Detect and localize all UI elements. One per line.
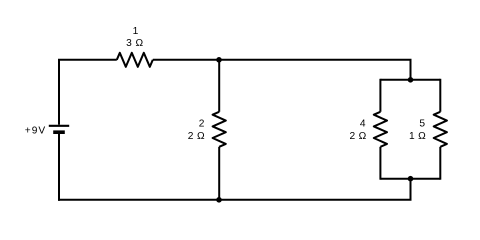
svg-text:+9V: +9V [25,126,46,137]
wire left vertical upper [58,60,60,125]
wire left vertical lower [58,134,60,201]
wire parallel top rail [380,79,440,81]
resistor R4 [374,79,387,180]
wire parallel bottom rail [380,178,440,180]
svg-text:2 Ω: 2 Ω [350,131,367,142]
resistor R2 [213,60,226,200]
svg-text:2: 2 [199,119,205,130]
svg-text:4: 4 [360,119,366,130]
svg-text:3 Ω: 3 Ω [126,38,143,49]
svg-text:1 Ω: 1 Ω [409,131,426,142]
svg-text:5: 5 [419,119,425,130]
wire bottom horizontal [58,199,412,201]
junction dot top right node [408,77,414,83]
label R2 name 2 value 2 ohm [188,119,205,143]
battery V1 [49,126,69,132]
svg-text:2 Ω: 2 Ω [188,131,205,142]
wire top right segment [153,60,411,80]
svg-text:1: 1 [133,26,139,37]
label R4 name 4 value 2 ohm [350,119,367,143]
wire bottom feed [410,179,412,200]
junction dot bottom middle node [216,197,222,203]
label R5 name 5 value 1 ohm [409,119,426,143]
resistor R1 [117,53,153,67]
junction dot bottom right node [408,176,414,182]
wire top left segment [58,59,117,61]
resistor R5 [434,79,447,180]
label R1 name 1 value 3 ohm [126,26,143,49]
junction dot top middle node [216,57,222,63]
